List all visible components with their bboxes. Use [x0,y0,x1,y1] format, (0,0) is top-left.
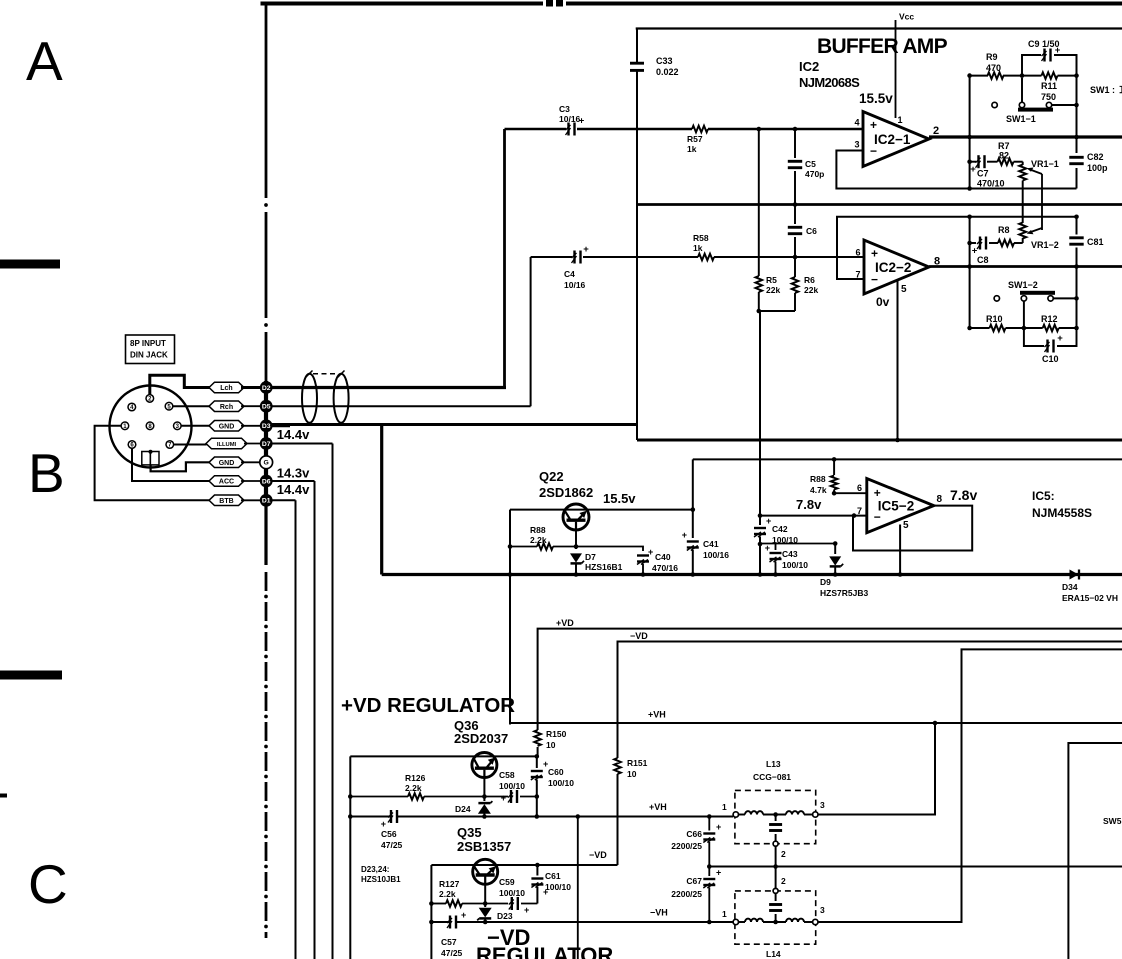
svg-text:2: 2 [781,849,786,859]
svg-text:+: + [381,819,386,829]
svg-text:47/25: 47/25 [381,840,403,850]
label SW1 [1090,85,1122,95]
svg-text:SW1−1: SW1−1 [1006,114,1036,124]
node j4 [793,255,798,260]
svg-text:L14: L14 [766,949,781,959]
wire ic5 loop [853,506,972,551]
wire -VH row [431,921,733,923]
wire D2 line [272,386,506,389]
wire ACC to bus [241,480,260,482]
svg-text:82: 82 [999,151,1009,161]
label 7.8v left [796,497,822,512]
wire section boundary (dash-dot bus) [264,4,268,939]
svg-text:15.5v: 15.5v [859,91,893,106]
label -VD [630,631,648,641]
label D23 24 [361,865,401,884]
connector DIN key [142,450,159,465]
diode D9 [820,541,868,598]
svg-text:CCG−081: CCG−081 [753,772,791,782]
svg-text:DIN JACK: DIN JACK [130,351,168,360]
svg-text:6: 6 [857,483,862,493]
switch SW1-2 [994,267,1079,329]
svg-text:R88: R88 [530,525,546,535]
node D2 [260,381,273,394]
svg-text:+VD: +VD [556,618,574,628]
svg-text:2200/25: 2200/25 [671,889,702,899]
node Lch tag [209,382,244,393]
svg-text:C60: C60 [548,767,564,777]
diode D34 [1062,570,1118,604]
wire -VD mid rail [709,864,1122,869]
svg-text:IC2: IC2 [799,59,819,74]
svg-text:−VD: −VD [630,631,648,641]
resistor R88 (4.7k) [810,457,837,495]
svg-text:C81: C81 [1087,237,1104,247]
inductor L14 box [735,891,816,944]
svg-text:2SD2037: 2SD2037 [454,731,508,746]
svg-text:C57: C57 [441,937,457,947]
svg-text:L13: L13 [766,759,781,769]
wire ILLUMI to bus [244,443,260,445]
capacitor C56 [381,810,403,850]
svg-text:2.2k: 2.2k [439,889,456,899]
resistor R150 [534,723,566,750]
capacitor C7 [970,155,1005,188]
node BTB tag [209,495,244,506]
pot VR1-2 [1019,223,1059,251]
node D5 [260,400,273,413]
svg-text:+: + [524,905,529,915]
resistor R57 [687,126,708,154]
svg-text:−VD: −VD [589,850,607,860]
capacitor C57 [441,910,466,958]
svg-text:10/16: 10/16 [564,280,586,290]
wire 7.8v row [758,513,867,518]
capacitor C3 [559,104,585,136]
label 7.8v right [950,487,977,503]
diode D23 [477,884,513,924]
svg-text:D6: D6 [262,478,271,485]
resistor R5 [756,129,781,311]
wire Lch to bus [241,386,260,389]
label +VD [556,618,574,628]
connector DIN shell [110,386,192,468]
resistor R11 [1041,72,1077,102]
svg-text:HZS7R5JB3: HZS7R5JB3 [820,588,868,598]
svg-text:C59: C59 [499,877,515,887]
label -VD REGULATOR [476,925,613,959]
resistor R7 [987,141,1023,165]
cable shield [302,371,349,423]
node G [260,456,273,469]
svg-text:GND: GND [219,423,235,430]
svg-text:R5: R5 [766,275,777,285]
svg-text:NJM4558S: NJM4558S [1032,506,1092,520]
wire pin5-Rch [173,405,213,407]
svg-text:NJM2068S: NJM2068S [799,75,860,90]
svg-text:22k: 22k [766,285,780,295]
op-amp IC2-1 [854,112,939,167]
svg-text:8P INPUT: 8P INPUT [130,339,166,348]
svg-text:VR1−2: VR1−2 [1031,240,1059,250]
svg-text:HZS10JB1: HZS10JB1 [361,875,401,884]
svg-text:1: 1 [722,802,727,812]
svg-text:R11: R11 [1041,81,1057,91]
svg-text:+VH: +VH [649,802,667,812]
resistor R151 [614,752,647,865]
node GND tag [209,421,244,432]
svg-text:Rch: Rch [220,404,233,411]
svg-text:3: 3 [820,905,825,915]
svg-text:+: + [970,164,976,175]
capacitor C9 [1022,39,1077,76]
wire +VH upper [510,721,1122,726]
label 15.5v q22 [603,491,636,506]
capacitor C6 [788,205,817,258]
svg-text:0v: 0v [876,295,890,309]
svg-text:Q22: Q22 [539,469,564,484]
pot VR1-1 [1019,159,1059,223]
svg-text:C40: C40 [655,552,671,562]
svg-text:10: 10 [546,740,556,750]
svg-text:D1: D1 [262,498,271,505]
wire Vcc rail [636,27,1122,29]
wire gnd bus [637,439,1122,442]
svg-text:C7: C7 [977,169,989,179]
wire pin6 stub [832,491,867,496]
svg-text:D23: D23 [497,911,513,921]
capacitor C4 [564,244,589,290]
resistor R8 [989,225,1023,246]
transistor Q22 [539,469,593,530]
svg-text:14.4v: 14.4v [277,427,310,442]
svg-text:47/25: 47/25 [441,948,463,958]
svg-text:10: 10 [627,769,637,779]
wire pin5 drop [895,281,900,442]
svg-text:470p: 470p [805,169,824,179]
label +VH lower [649,802,667,812]
node j1 [757,127,762,132]
node Rch tag [209,401,244,412]
capacitor C40 [576,547,678,577]
node GND tag [209,457,244,468]
svg-text:+VD REGULATOR: +VD REGULATOR [341,694,515,717]
svg-text:D34: D34 [1062,582,1078,592]
svg-text:C56: C56 [381,829,397,839]
resistor R9 [970,52,1042,79]
wire D3 line tail [272,424,290,427]
node D3 [260,419,273,432]
svg-text:8: 8 [937,494,943,505]
wire BTB to bus [241,499,260,501]
svg-text:GND: GND [219,460,235,467]
zone tick bar 1 [0,260,60,269]
svg-text:BUFFER AMP: BUFFER AMP [817,35,948,58]
wire main bus [382,573,1122,576]
resistor R6 [792,257,819,311]
svg-text:+: + [871,246,878,260]
wire r5r6 drop [759,311,761,516]
wire gnd drop [380,425,383,575]
svg-text:R57: R57 [687,134,703,144]
svg-text:2.2k: 2.2k [530,535,547,545]
svg-text:100/10: 100/10 [499,781,525,791]
svg-text:+: + [501,793,506,803]
svg-text:470: 470 [986,63,1001,73]
svg-text:0.022: 0.022 [656,67,679,77]
label BUFFER AMP [817,35,948,58]
label IC2 [799,59,860,90]
svg-text:C3: C3 [559,104,570,114]
svg-text:3: 3 [820,800,825,810]
svg-text:R6: R6 [804,275,815,285]
svg-text:C5: C5 [805,159,816,169]
node Vcc [896,12,915,119]
label 8P INPUT DIN JACK [126,335,175,364]
wire pin7-ILLUMI [174,444,207,446]
transistor Q36 [472,753,497,778]
capacitor C81 [1069,217,1103,269]
capacitor C5 [788,129,825,205]
svg-text:G: G [264,460,269,467]
capacitor C10 [1024,328,1077,364]
svg-text:C58: C58 [499,770,515,780]
wire mid rail [637,203,1122,206]
svg-text:100/10: 100/10 [499,888,525,898]
svg-text:D7: D7 [262,441,271,448]
svg-text:5: 5 [901,284,907,295]
capacitor C67 [671,864,721,924]
wire fb left vert 2 [967,217,972,328]
wire ic2-1 feedback [836,151,1076,189]
zone letter B [28,442,65,504]
wire Rch input [531,257,864,406]
svg-text:750: 750 [1041,92,1056,102]
wire bias rail [693,458,1122,460]
svg-text:+: + [461,910,466,920]
svg-text:100/10: 100/10 [548,778,574,788]
node j3 [793,202,798,207]
switch SW1-1 [992,78,1077,124]
svg-text:C10: C10 [1042,354,1059,364]
node j2 [793,127,798,132]
svg-text:+: + [765,543,770,553]
wire D1 line [272,500,295,959]
op-amp IC2-2 [855,240,940,309]
capacitor C8 [970,237,989,266]
svg-text:10/16: 10/16 [559,114,581,124]
wire fb left vert [967,73,972,191]
label Q35 [457,825,511,854]
svg-text:7.8v: 7.8v [796,497,822,512]
svg-text:BTB: BTB [219,498,233,505]
svg-text:7: 7 [857,506,862,516]
svg-text:SW5: SW5 [1103,816,1122,826]
switch SW5 box [1068,743,1122,959]
svg-text:7: 7 [855,270,860,280]
wire D6 line [272,481,314,959]
op-amp IC5-2 [857,479,943,533]
transistor Q35 [473,859,498,884]
resistor R58 [693,233,714,260]
wire GND to bus [241,425,260,427]
svg-text:22k: 22k [804,285,818,295]
wire q22 base col [508,510,513,725]
resistor R10 [967,314,1042,331]
svg-text:C9 1/50: C9 1/50 [1028,39,1060,49]
label -VH [650,908,668,918]
capacitor C33 [630,56,679,77]
svg-text:4.7k: 4.7k [810,485,827,495]
capacitor C61 [531,863,571,904]
label 14.4v a [277,427,310,442]
svg-text:D9: D9 [820,577,831,587]
svg-text:1k: 1k [693,243,703,253]
svg-text:470/16: 470/16 [652,563,678,573]
wire pin3-GND [181,425,212,427]
svg-text:R9: R9 [986,52,998,62]
svg-text:D24: D24 [455,804,471,814]
edge mark [0,794,7,798]
svg-text:3: 3 [854,140,859,150]
wire D7 line [272,444,332,959]
label -VD mid [589,850,607,860]
svg-text:R150: R150 [546,729,567,739]
diode D24 [455,777,492,819]
svg-text:470/10: 470/10 [977,179,1005,189]
label 15.5v ic2 [859,91,893,106]
wire r150 tail [537,747,539,756]
svg-text:IC5:: IC5: [1032,489,1055,503]
svg-text:R58: R58 [693,233,709,243]
svg-text:SW1 : Ｉ: SW1 : Ｉ [1090,85,1122,95]
svg-text:IC2−1: IC2−1 [874,132,911,147]
label 14.3v [277,466,310,481]
wire D3 gnd row [272,423,637,426]
svg-text:D7: D7 [585,552,596,562]
svg-text:+: + [716,868,721,878]
label +VH upper [648,710,666,720]
wire q22 chord [510,509,693,511]
svg-text:R126: R126 [405,773,426,783]
resistor R88 (2.2k) [510,525,576,550]
svg-text:2SD1862: 2SD1862 [539,485,593,500]
svg-text:2: 2 [781,876,786,886]
svg-text:1k: 1k [687,144,697,154]
svg-text:C42: C42 [772,524,788,534]
inductor L13 box [735,790,816,843]
wire pin2-Lch [150,375,211,394]
wire q35 collector row [431,864,617,866]
wire vh drop [576,814,581,959]
node D1 [260,494,273,507]
zone tick bar 2 [0,671,62,680]
svg-text:C82: C82 [1087,152,1104,162]
capacitor C42 [754,516,798,577]
svg-text:−VH: −VH [650,908,668,918]
svg-text:+: + [583,244,589,255]
wire Lch input [505,129,863,388]
inductor L14 [722,867,825,959]
wire +VD reg left edge [348,756,353,959]
svg-text:B: B [28,442,65,504]
svg-text:R88: R88 [810,474,826,484]
node D6 [260,475,273,488]
svg-text:REGULATOR: REGULATOR [476,943,613,959]
svg-text:C66: C66 [686,829,702,839]
svg-text:Lch: Lch [220,385,232,392]
svg-text:C4: C4 [564,269,575,279]
svg-text:14.3v: 14.3v [277,466,310,481]
wire r5r6 join [757,309,796,314]
svg-text:C41: C41 [703,539,719,549]
label Q36 [454,718,508,746]
wire l14 pin3 riser [818,649,1122,922]
svg-text:R8: R8 [998,225,1010,235]
svg-text:2200/25: 2200/25 [671,841,702,851]
wire ic5 pin5 [898,525,903,577]
inductor L13 [722,759,825,867]
node ACC tag [209,476,244,487]
svg-text:+VH: +VH [648,710,666,720]
node D7 [260,437,273,450]
svg-text:C: C [28,853,68,915]
svg-text:Q35: Q35 [457,825,482,840]
svg-text:C67: C67 [686,876,702,886]
wire ic2-2 top fb [837,215,1079,280]
wire fb right vert top [1074,55,1079,189]
wire l13 pin3 riser [818,723,935,815]
capacitor C58 [499,770,539,803]
wire pin1-BTB [95,426,214,501]
svg-text:+: + [766,516,771,526]
svg-text:HZS16B1: HZS16B1 [585,562,623,572]
svg-text:IC2−2: IC2−2 [875,260,911,275]
wire -VD rail [618,642,1122,753]
svg-text:C43: C43 [782,549,798,559]
wire +VH row [350,816,733,818]
svg-text:+: + [716,822,721,832]
svg-text:4: 4 [854,118,859,128]
svg-text:C33: C33 [656,56,673,66]
svg-text:C6: C6 [806,226,817,236]
svg-text:SW1−2: SW1−2 [1008,280,1038,290]
svg-text:D2: D2 [262,385,271,392]
svg-text:1: 1 [722,909,727,919]
zone letter A [26,30,63,92]
wire +VD rail [538,629,1122,723]
wire key-GND [151,462,213,471]
label 14.4v b [277,482,310,497]
svg-text:VR1−1: VR1−1 [1031,159,1059,169]
connector DIN pins [121,395,181,449]
svg-text:R127: R127 [439,879,460,889]
capacitor C66 [671,814,721,866]
svg-text:2: 2 [933,125,939,137]
svg-text:5: 5 [903,520,909,531]
svg-text:ERA15−02 VH: ERA15−02 VH [1062,593,1118,603]
svg-text:+: + [1057,333,1063,344]
svg-text:D3: D3 [262,423,271,430]
node ILLUMI tag [206,438,247,449]
wire GND to bus [241,461,260,463]
svg-text:Vcc: Vcc [899,12,914,22]
wire top border [261,0,1122,7]
svg-text:100/16: 100/16 [703,550,729,560]
capacitor C60 [531,756,574,818]
label +VD REGULATOR [341,694,515,717]
svg-text:+: + [870,118,877,132]
